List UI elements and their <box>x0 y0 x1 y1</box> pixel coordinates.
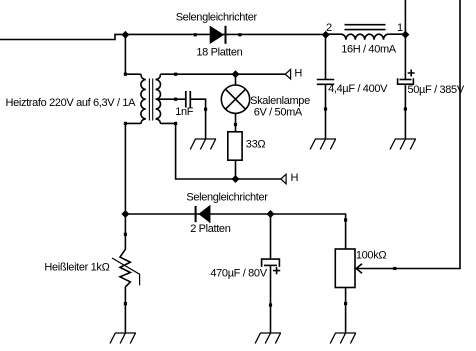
wire secondary top to H terminal <box>162 73 286 75</box>
thermistor R2 zigzag <box>120 214 130 333</box>
wire 1nF to ground <box>190 99 205 139</box>
svg-text:4,4µF / 400V: 4,4µF / 400V <box>328 83 388 95</box>
pin 1nF ground lead <box>204 108 207 111</box>
wire mains input left <box>0 34 326 39</box>
wire R1 bottom lead <box>235 160 237 179</box>
pin transformer secondary top <box>174 73 177 76</box>
svg-text:6V / 50mA: 6V / 50mA <box>254 107 303 119</box>
pin transformer secondary bottom <box>174 122 177 125</box>
inductor L1 core lines <box>345 24 386 26</box>
lamp LA1 circle <box>221 85 249 113</box>
wire lamp top lead <box>235 74 237 85</box>
wire inductor link and humps L1 <box>326 34 406 40</box>
junction R1 bottom <box>232 175 240 183</box>
lower horizontal wire to D2 and pot <box>125 214 345 249</box>
ground below thermistor <box>110 333 136 344</box>
lamp LA1 cross <box>226 89 246 109</box>
junction lower middle <box>267 210 275 218</box>
svg-text:18 Platten: 18 Platten <box>196 46 242 58</box>
svg-text:100kΩ: 100kΩ <box>356 250 386 262</box>
svg-text:16H / 40mA: 16H / 40mA <box>341 44 397 56</box>
diode D2 selenium 2 Platten <box>198 205 210 223</box>
pin thermistor bottom <box>124 302 127 305</box>
pin pot bottom <box>344 302 347 305</box>
junction node 2 <box>322 31 330 39</box>
svg-text:1nF: 1nF <box>175 106 194 118</box>
capacitor C1 4.4uF plates <box>317 79 334 81</box>
pin below C2 <box>404 107 407 110</box>
junction lower left <box>121 210 129 218</box>
junction node at mains split <box>121 31 129 39</box>
terminal arrow H bottom <box>281 174 286 184</box>
wire secondary center tap to 1nF <box>156 98 186 100</box>
ground below C1 <box>310 139 336 150</box>
potentiometer wiper arrowhead <box>356 264 362 274</box>
wire junction to C4 470uF <box>270 214 272 259</box>
wire right rail from top edge to potentiometer wiper <box>356 0 460 269</box>
svg-text:2 Platten: 2 Platten <box>190 223 231 235</box>
capacitor C2 50uF bracket <box>398 78 414 84</box>
wire C1 to ground <box>325 84 327 139</box>
capacitor C3 1nF plates <box>185 91 187 108</box>
pin thermistor top <box>124 233 127 236</box>
label C4 plus sign <box>273 267 280 274</box>
pin below C4 <box>269 303 272 306</box>
potentiometer P1 body <box>335 249 355 288</box>
wire primary bottom down to lower junction <box>124 123 126 214</box>
wire junction to transformer primary top <box>124 34 126 74</box>
svg-text:H: H <box>294 67 302 79</box>
pin pot top <box>344 218 347 221</box>
capacitor C4 470uF bracket <box>262 259 280 267</box>
transformer T1 secondary winding <box>156 74 162 123</box>
svg-text:33Ω: 33Ω <box>246 139 266 151</box>
wire node1 vertical to top edge and down to C2 <box>404 0 406 79</box>
svg-text:2: 2 <box>326 22 332 34</box>
svg-text:Heiztrafo 220V auf 6,3V / 1A: Heiztrafo 220V auf 6,3V / 1A <box>6 97 137 109</box>
wire C4 to ground <box>270 265 272 333</box>
transformer T1 primary winding <box>125 74 145 123</box>
capacitor C4 470uF plate <box>264 264 277 266</box>
wire lamp bottom lead <box>235 113 237 131</box>
wire pot bottom to ground <box>345 288 347 334</box>
capacitor C2 50uF plate <box>400 79 412 81</box>
svg-text:H: H <box>291 172 299 184</box>
ground below C4 <box>255 333 281 344</box>
wire C2 to ground <box>404 84 406 139</box>
pin pot wiper wire <box>393 267 396 270</box>
svg-text:50µF / 385V: 50µF / 385V <box>408 84 465 96</box>
svg-text:470µF / 80V: 470µF / 80V <box>210 268 267 280</box>
junction lamp top <box>232 70 240 78</box>
pin D1 cathode <box>238 33 241 36</box>
junction node 1 <box>401 31 409 39</box>
pin lamp bottom <box>234 123 237 126</box>
svg-text:Heißleiter 1kΩ: Heißleiter 1kΩ <box>44 262 109 274</box>
pin transformer primary top <box>124 73 127 76</box>
wire secondary bottom to lower H terminal <box>162 123 281 179</box>
thermistor R2 strike mark <box>112 258 140 285</box>
svg-text:Selengleichrichter: Selengleichrichter <box>176 11 258 23</box>
pin D1 anode <box>194 33 197 36</box>
pin transformer primary bottom <box>124 122 127 125</box>
label C2 plus sign <box>408 70 415 77</box>
wire node2 down to C1 <box>325 34 327 79</box>
terminal arrow H top <box>285 69 290 79</box>
svg-text:Skalenlampe: Skalenlampe <box>250 95 310 107</box>
svg-text:1: 1 <box>397 22 403 34</box>
svg-text:Selengleichrichter: Selengleichrichter <box>186 192 268 204</box>
pin below C1 <box>324 107 327 110</box>
ground below potentiometer <box>330 333 356 344</box>
pin transformer secondary tap <box>174 98 177 101</box>
ground below C2 <box>390 139 416 150</box>
diode D1 selenium 18 Platten <box>210 26 225 44</box>
transformer T1 core <box>148 79 150 121</box>
resistor R1 33ohm body <box>228 132 242 160</box>
ground below 1nF <box>190 139 216 150</box>
